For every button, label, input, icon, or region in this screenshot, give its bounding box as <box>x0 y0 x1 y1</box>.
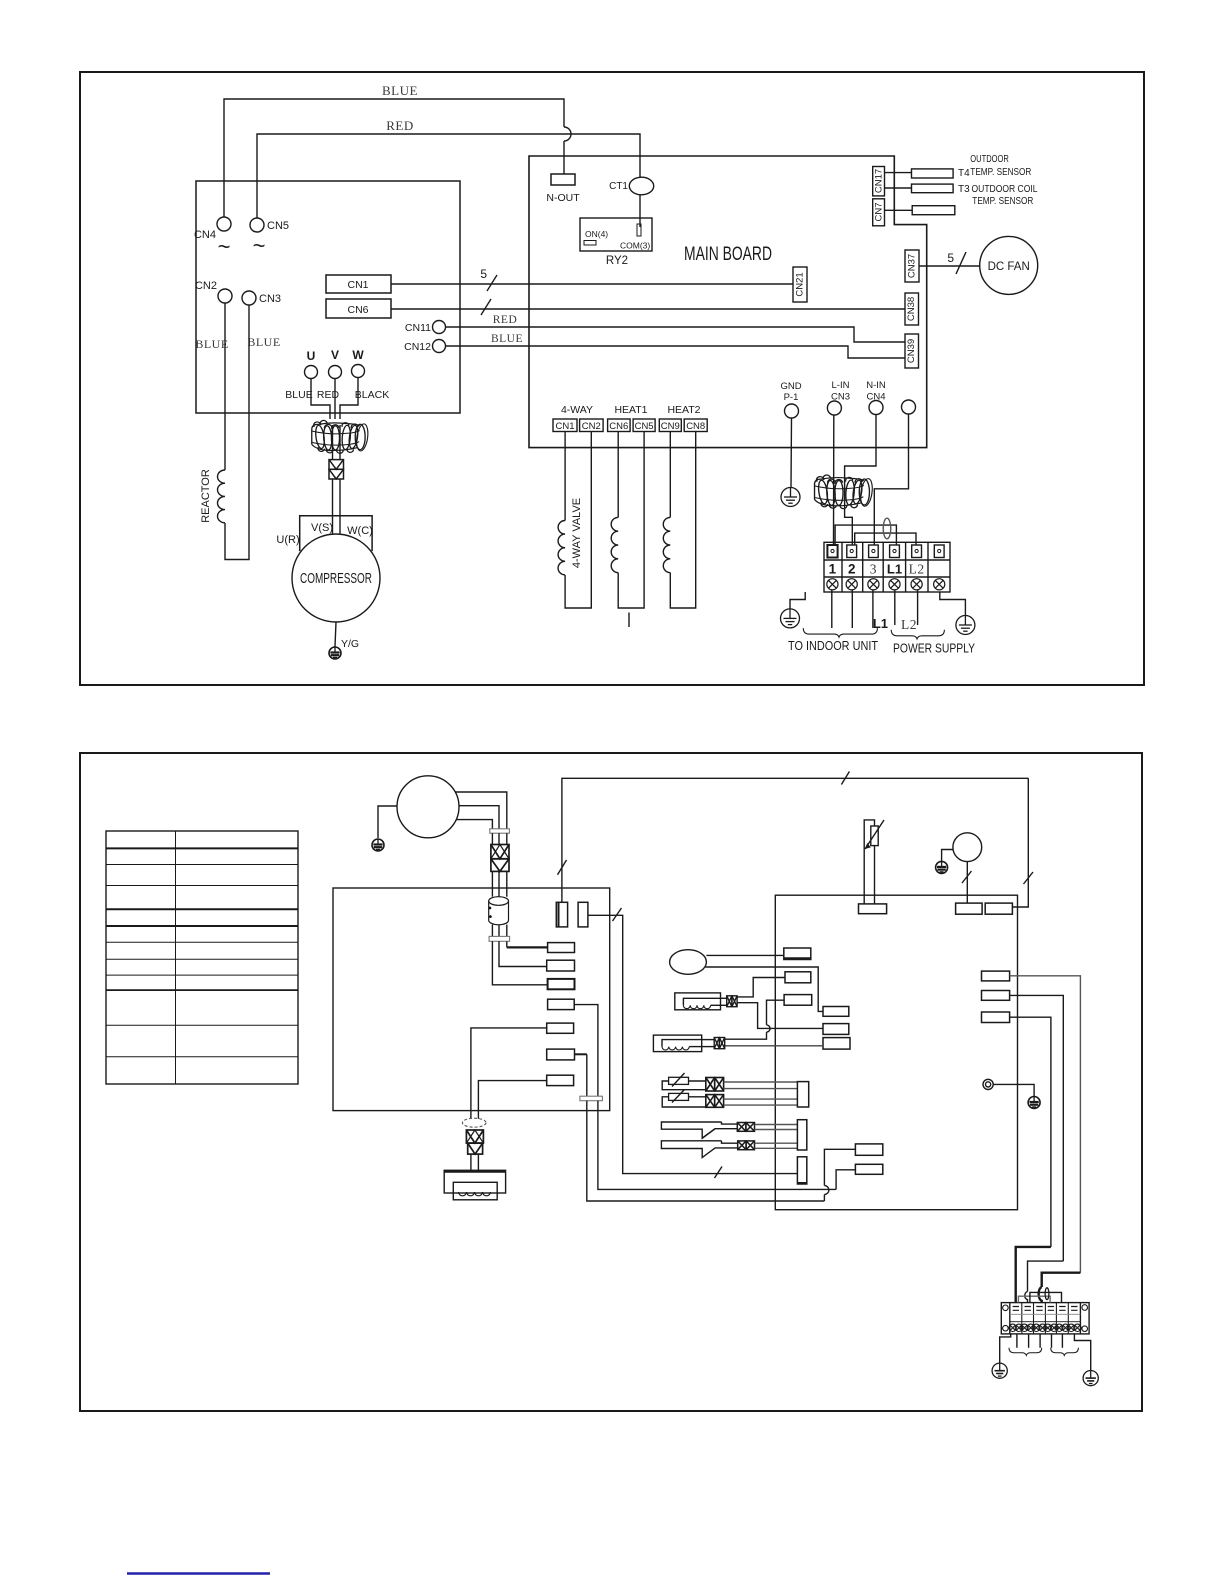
slash 5 on CN1 wire <box>487 275 497 291</box>
connector vert B <box>578 902 588 927</box>
svg-text:P-1: P-1 <box>784 392 799 403</box>
wire L-IN through core to terminal 1 <box>833 415 835 545</box>
plug stack bottom heater <box>466 1130 483 1154</box>
pin faston terminal 1 <box>827 545 837 558</box>
sensor loop wires <box>864 820 874 904</box>
heater H1 <box>675 993 721 1010</box>
wire screw to earth <box>993 1084 1034 1096</box>
ferrite cylinder <box>489 897 509 925</box>
svg-text:N-IN: N-IN <box>866 380 886 391</box>
reactor bottom wire <box>225 305 249 560</box>
plug pair fork1 <box>737 1123 754 1132</box>
connector CN39 <box>905 334 919 368</box>
svg-text:CN39: CN39 <box>906 339 917 363</box>
fan ground wire <box>942 850 953 862</box>
svg-text:CN37: CN37 <box>907 254 918 278</box>
reactor coil <box>218 470 226 523</box>
earth left of block <box>790 592 805 609</box>
slash on fan wire <box>962 871 972 883</box>
svg-text:W: W <box>352 348 364 362</box>
svg-text:3: 3 <box>870 562 877 577</box>
terminal block outdoor <box>824 542 950 592</box>
wire BLUE top <box>224 99 564 217</box>
plug pair H2 <box>714 1038 725 1049</box>
connector P3 <box>784 995 812 1006</box>
node V <box>329 366 342 379</box>
slash on sensor drop <box>558 860 567 875</box>
plug pair F2 <box>706 1095 724 1108</box>
link cell1 to cell4 gray <box>1018 1296 1050 1302</box>
svg-text:4-WAY: 4-WAY <box>561 404 593 416</box>
wires fork1 to T2 <box>755 1124 798 1126</box>
wire compressor W <box>455 792 507 829</box>
svg-text:OUTDOOR: OUTDOOR <box>970 154 1009 165</box>
block corner hole TL <box>1003 1305 1009 1311</box>
wires plug to compressor terminals <box>332 479 334 535</box>
compressor circle bottom <box>397 776 459 838</box>
wire top rail down to conn R <box>1012 778 1028 907</box>
connector A right <box>823 1007 849 1017</box>
connector P1 <box>784 948 811 960</box>
svg-text:CN4: CN4 <box>194 229 216 241</box>
stub below cell1 <box>1016 1334 1018 1348</box>
brace power supply <box>891 630 944 639</box>
slash on B wire <box>613 908 622 921</box>
fusible resistor F2 <box>669 1093 689 1100</box>
screw terminal L2 <box>911 579 922 590</box>
wire V to core <box>334 379 336 420</box>
screw terminal L1 <box>889 579 900 590</box>
svg-text:CN2: CN2 <box>195 280 217 292</box>
connector r2 <box>547 960 575 971</box>
connector CN9 bottom <box>659 419 681 432</box>
wire into cell2 <box>1028 1261 1064 1291</box>
wire CN17 to T3 <box>885 187 912 189</box>
ground compressor <box>329 647 341 659</box>
ground GND P-1 <box>781 488 800 507</box>
wire compressor to ground <box>378 806 398 838</box>
svg-text:CN12: CN12 <box>404 341 431 353</box>
stub below cell3 <box>1039 1334 1041 1348</box>
wire CN37 to DC FAN <box>919 265 980 267</box>
wires plug into box <box>491 871 493 896</box>
svg-text:GND: GND <box>780 381 801 392</box>
wire compressor V <box>459 806 499 829</box>
connector D2 bottom right <box>855 1164 882 1174</box>
svg-text:U(R): U(R) <box>276 534 299 546</box>
screw terminal 3 <box>868 579 879 590</box>
thermistor discharge sensor <box>871 826 878 846</box>
connector B right <box>823 1024 849 1035</box>
wire below terminal 3 <box>872 590 874 628</box>
wire V to conn r2 <box>499 941 547 966</box>
wire GND to earth <box>790 418 793 487</box>
screw terminal 1 <box>827 579 838 590</box>
wire r5 left down to heater <box>471 1028 547 1119</box>
cable band 2 <box>489 936 510 941</box>
svg-text:L1: L1 <box>873 616 888 631</box>
svg-text:T3: T3 <box>958 184 970 195</box>
compressor terminal box <box>300 516 372 551</box>
F2 left loop <box>662 1097 706 1107</box>
wire spare to terminal 3 <box>874 414 908 545</box>
slash on top rail <box>841 772 849 785</box>
frame bottom diagram <box>80 753 1142 1411</box>
svg-text:~: ~ <box>253 233 266 258</box>
wires F2 to T1 <box>724 1098 798 1100</box>
svg-text:N-OUT: N-OUT <box>546 192 580 204</box>
terminal box outdoor <box>196 181 460 413</box>
wire fan to conn L <box>966 862 968 904</box>
wire C left to heater H2 lower <box>725 1045 823 1047</box>
svg-text:1: 1 <box>829 562 837 577</box>
svg-text:CN5: CN5 <box>635 421 654 432</box>
legend table <box>106 831 298 1084</box>
wire U to core <box>311 379 330 420</box>
sensor rect CN7 <box>912 206 955 215</box>
node U <box>305 366 318 379</box>
pcb box left <box>333 888 610 1111</box>
node CN2 <box>218 289 232 303</box>
4-way valve coil <box>564 432 566 521</box>
wires plug to T heater <box>470 1154 472 1170</box>
sensor T3 <box>912 184 954 193</box>
wire below terminal L1 <box>894 590 896 625</box>
link cell2 to cell5 <box>1030 1292 1062 1302</box>
wire W to conn r1 <box>506 941 508 947</box>
connector T1 tall <box>797 1082 808 1107</box>
connector L top <box>956 903 983 914</box>
fusible resistor F1 <box>669 1077 689 1084</box>
connector r7 <box>547 1075 574 1085</box>
wire compressor to ground <box>335 622 336 647</box>
svg-text:TO INDOOR UNIT: TO INDOOR UNIT <box>788 638 878 653</box>
plug pair H1 <box>727 996 737 1007</box>
F1 left loop <box>662 1081 706 1090</box>
svg-text:CN38: CN38 <box>906 297 917 321</box>
connector CN6 bottom <box>608 419 631 432</box>
svg-text:~: ~ <box>218 234 231 259</box>
ferrite core power <box>815 475 874 509</box>
heater coil HEAT1 <box>617 432 619 518</box>
link wire 2 to L2 <box>855 533 916 545</box>
slash on row5 wire <box>715 1167 723 1179</box>
block corner hole BR <box>1082 1326 1088 1332</box>
defrost probe fork2 <box>661 1141 737 1158</box>
svg-text:COM(3): COM(3) <box>620 241 650 251</box>
screw terminal blank <box>934 579 945 590</box>
svg-text:CN7: CN7 <box>874 202 885 221</box>
wire sensorA to top rail <box>562 778 1028 902</box>
svg-text:CN11: CN11 <box>405 322 431 334</box>
connector r6 <box>547 1049 575 1060</box>
svg-text:POWER SUPPLY: POWER SUPPLY <box>893 641 975 656</box>
dashed bead bottom heater <box>462 1118 486 1127</box>
svg-text:COMPRESSOR: COMPRESSOR <box>300 570 372 587</box>
svg-text:CN6: CN6 <box>347 304 368 316</box>
wire CN6 to CN38 <box>391 308 905 310</box>
pin faston terminal L1 <box>890 545 900 558</box>
wire CN2 down to reactor <box>224 303 226 470</box>
svg-text:Y/G: Y/G <box>341 638 359 650</box>
wire H1 to plug <box>721 997 727 999</box>
frame top diagram <box>80 72 1144 685</box>
link wire 1 to L1 <box>835 525 896 545</box>
ground fan <box>936 861 948 873</box>
wires band to plug <box>491 833 493 844</box>
wire r7 left down to heater <box>478 1081 546 1119</box>
pin faston terminal blank <box>934 545 944 558</box>
connector CN17 <box>873 167 885 196</box>
svg-text:TEMP. SENSOR: TEMP. SENSOR <box>970 167 1031 178</box>
overload protector oval <box>670 950 707 975</box>
main board outline <box>529 156 927 448</box>
connector CN5 bottom <box>633 419 655 432</box>
svg-text:CN17: CN17 <box>874 169 885 193</box>
svg-text:L-IN: L-IN <box>832 380 850 391</box>
block corner hole BL <box>1003 1325 1009 1331</box>
plug connector stack compressor <box>329 460 344 479</box>
wire compressor U <box>456 820 492 829</box>
connector r3 <box>548 979 575 989</box>
brace indoor bottom <box>1009 1348 1042 1356</box>
connector T3 tall <box>797 1157 806 1184</box>
svg-text:CN2: CN2 <box>582 421 601 432</box>
cell screws row <box>1009 1324 1081 1331</box>
wires cylinder down <box>491 925 493 937</box>
wire D1 left down <box>824 1149 855 1185</box>
connector vert A thermo <box>556 902 567 927</box>
wire below terminal 1 <box>831 590 833 628</box>
svg-text:BLUE: BLUE <box>491 333 523 345</box>
screw boss <box>983 1079 993 1089</box>
node spare <box>902 400 916 414</box>
slash 5 on fan wire <box>956 252 966 274</box>
wire oval lower to conn A <box>705 967 823 1011</box>
wire R3 down long <box>1010 1017 1051 1247</box>
svg-text:BLUE: BLUE <box>382 83 418 98</box>
svg-text:5: 5 <box>947 251 954 265</box>
connector CN1 box <box>326 275 391 293</box>
transformer CT1 <box>629 177 653 195</box>
sensor T4 <box>912 169 954 178</box>
F1 to plug <box>689 1080 706 1082</box>
wire CN7 to sensor3 <box>885 209 913 211</box>
connector r4 <box>548 999 575 1009</box>
wire below terminal L2 <box>917 590 919 625</box>
svg-text:CN3: CN3 <box>259 293 281 305</box>
connector sensor top <box>859 904 887 914</box>
stub below cell5 <box>1061 1334 1063 1348</box>
brace power bottom <box>1051 1348 1079 1356</box>
svg-text:T4: T4 <box>958 168 970 179</box>
wire CT1 to RY2 <box>639 195 641 227</box>
bead on block wires <box>1045 1288 1049 1300</box>
svg-text:L1: L1 <box>887 562 902 577</box>
motor DC FAN <box>980 236 1038 294</box>
earth right of block <box>940 592 966 616</box>
wire U to conn r3 <box>492 941 547 985</box>
wire r6 down to bottom rail <box>587 1101 825 1201</box>
svg-text:OUTDOOR COIL: OUTDOOR COIL <box>972 184 1038 195</box>
defrost probe fork1 <box>661 1122 737 1138</box>
wire R1 down long <box>1010 976 1081 1273</box>
svg-text:RED: RED <box>493 314 518 326</box>
connector R1 right edge <box>982 971 1010 981</box>
svg-text:CN1: CN1 <box>555 421 574 432</box>
connector D1 bottom right <box>855 1144 882 1155</box>
wire P3 left down to heater H2 <box>767 1000 785 1025</box>
slash on right drop <box>1024 872 1034 884</box>
svg-text:TEMP. SENSOR: TEMP. SENSOR <box>972 196 1033 207</box>
node CN5 <box>250 218 264 232</box>
connector CN2 bottom <box>580 419 604 432</box>
cable band 1 <box>490 829 510 833</box>
wire CN1 to CN21 <box>391 283 793 285</box>
connector R2 right edge <box>982 991 1010 1001</box>
connector C right <box>823 1038 850 1050</box>
svg-text:CN6: CN6 <box>609 421 628 432</box>
wire oval to conn P1 <box>706 954 783 956</box>
wire r4 down to rail W1 <box>598 1101 836 1190</box>
connector CN1 bottom <box>553 419 577 432</box>
screw terminal 2 <box>846 579 857 590</box>
pin faston terminal L2 <box>912 545 922 558</box>
bead on link wires <box>883 518 891 539</box>
svg-text:U: U <box>307 349 316 363</box>
plug pair F1 <box>706 1078 724 1092</box>
connector CN37 <box>905 250 919 282</box>
link band small <box>580 1096 603 1101</box>
compressor COMP1 <box>292 534 380 622</box>
bottom terminal block indoor <box>1001 1303 1089 1334</box>
fan motor bottom <box>953 833 982 862</box>
wire B right down to row5 <box>588 915 798 1173</box>
pin faston terminal 3 <box>869 545 879 558</box>
wire W to core <box>340 378 358 420</box>
cell clamp marks <box>1013 1307 1078 1311</box>
wire into cell1 thick <box>1016 1247 1051 1303</box>
svg-text:RED: RED <box>317 389 340 401</box>
plug connector stack compressor bottom <box>491 845 509 872</box>
pcb box right <box>775 895 1017 1209</box>
wire into cell3 thick <box>1042 1273 1081 1287</box>
node CN11 <box>433 321 446 334</box>
plug pair fork2 <box>738 1141 755 1150</box>
svg-text:2: 2 <box>848 562 856 577</box>
svg-text:CN9: CN9 <box>661 421 680 432</box>
svg-text:CT1: CT1 <box>609 181 628 192</box>
node GND P-1 <box>785 404 799 418</box>
svg-text:W(C): W(C) <box>347 525 373 537</box>
wire RED top <box>257 134 640 218</box>
node N-IN CN4 <box>869 401 883 415</box>
earth right bottom block <box>1074 1334 1090 1371</box>
wires F1 to T1 <box>724 1081 798 1083</box>
svg-text:CN8: CN8 <box>686 421 705 432</box>
svg-text:CN5: CN5 <box>267 220 289 232</box>
slash on CN6 wire <box>481 299 491 315</box>
svg-text:4-WAY VALVE: 4-WAY VALVE <box>571 498 583 568</box>
stub below cell4 <box>1051 1334 1053 1348</box>
connector T2 tall <box>797 1120 806 1150</box>
node W <box>352 365 365 378</box>
footer blue rule <box>127 1572 270 1574</box>
wires core to plug <box>332 425 334 460</box>
svg-text:HEAT1: HEAT1 <box>614 404 647 416</box>
bottom T heater <box>444 1170 505 1200</box>
svg-text:CN1: CN1 <box>347 279 368 291</box>
wire P2 left to heater H1 <box>737 978 785 997</box>
earth left bottom block <box>1000 1334 1011 1363</box>
heater H2 <box>653 1035 701 1052</box>
ground pcb right <box>1028 1097 1040 1109</box>
wire H2 to plug <box>702 1039 715 1041</box>
connector N-OUT <box>551 174 575 185</box>
wire r4 right down <box>574 1005 598 1097</box>
svg-text:ON(4): ON(4) <box>585 229 608 239</box>
wire B left to heater H1 lower <box>737 1003 823 1029</box>
node CN3 <box>242 291 256 305</box>
connector R top <box>985 903 1012 914</box>
svg-text:MAIN BOARD: MAIN BOARD <box>684 244 772 265</box>
ferrite core compressor <box>312 420 370 453</box>
wire CN17 to T4 <box>885 172 912 174</box>
wire D2 left down <box>836 1170 855 1190</box>
pin faston terminal 2 <box>847 545 857 558</box>
tick below HEAT1 <box>628 613 630 628</box>
relay RY2 <box>580 218 652 251</box>
connector CN7 <box>873 199 885 226</box>
svg-text:RED: RED <box>386 118 414 133</box>
connector r5 <box>547 1023 574 1033</box>
wire CN12 BLUE to CN39 <box>446 346 906 358</box>
svg-text:L2: L2 <box>909 562 925 577</box>
svg-text:L2: L2 <box>901 617 917 632</box>
svg-text:V: V <box>331 348 339 362</box>
connector R3 right edge <box>982 1012 1010 1023</box>
svg-text:HEAT2: HEAT2 <box>667 404 700 416</box>
connector CN6 box <box>326 299 391 318</box>
wire N-IN to terminal 2 <box>845 415 876 546</box>
svg-text:BLUE: BLUE <box>247 335 280 349</box>
svg-text:RY2: RY2 <box>606 255 628 267</box>
connector CN21 <box>793 267 807 302</box>
stub below cell2 <box>1028 1334 1030 1348</box>
brace to indoor unit <box>803 628 877 637</box>
heater coil HEAT2 <box>669 432 671 518</box>
node CN12 <box>433 340 446 353</box>
wire hop over RED <box>564 127 571 141</box>
svg-text:DC FAN: DC FAN <box>988 261 1030 273</box>
wire R2 down long <box>1010 995 1064 1261</box>
node CN4 <box>217 217 231 231</box>
block corner hole TR <box>1082 1305 1088 1311</box>
wire below terminal 2 <box>851 590 853 628</box>
connector r1 <box>548 943 575 953</box>
svg-text:REACTOR: REACTOR <box>200 469 212 523</box>
svg-text:CN21: CN21 <box>795 272 806 296</box>
svg-text:5: 5 <box>480 267 487 281</box>
wire CN11 RED to CN39 <box>446 327 906 342</box>
connector CN8 bottom <box>684 419 707 432</box>
connector P2 <box>785 972 811 983</box>
ground compressor bottom <box>372 839 384 851</box>
F2 to plug <box>689 1096 706 1098</box>
wires fork2 to T2 <box>755 1142 798 1144</box>
connector CN38 <box>905 293 919 325</box>
svg-text:V(S): V(S) <box>311 522 333 534</box>
